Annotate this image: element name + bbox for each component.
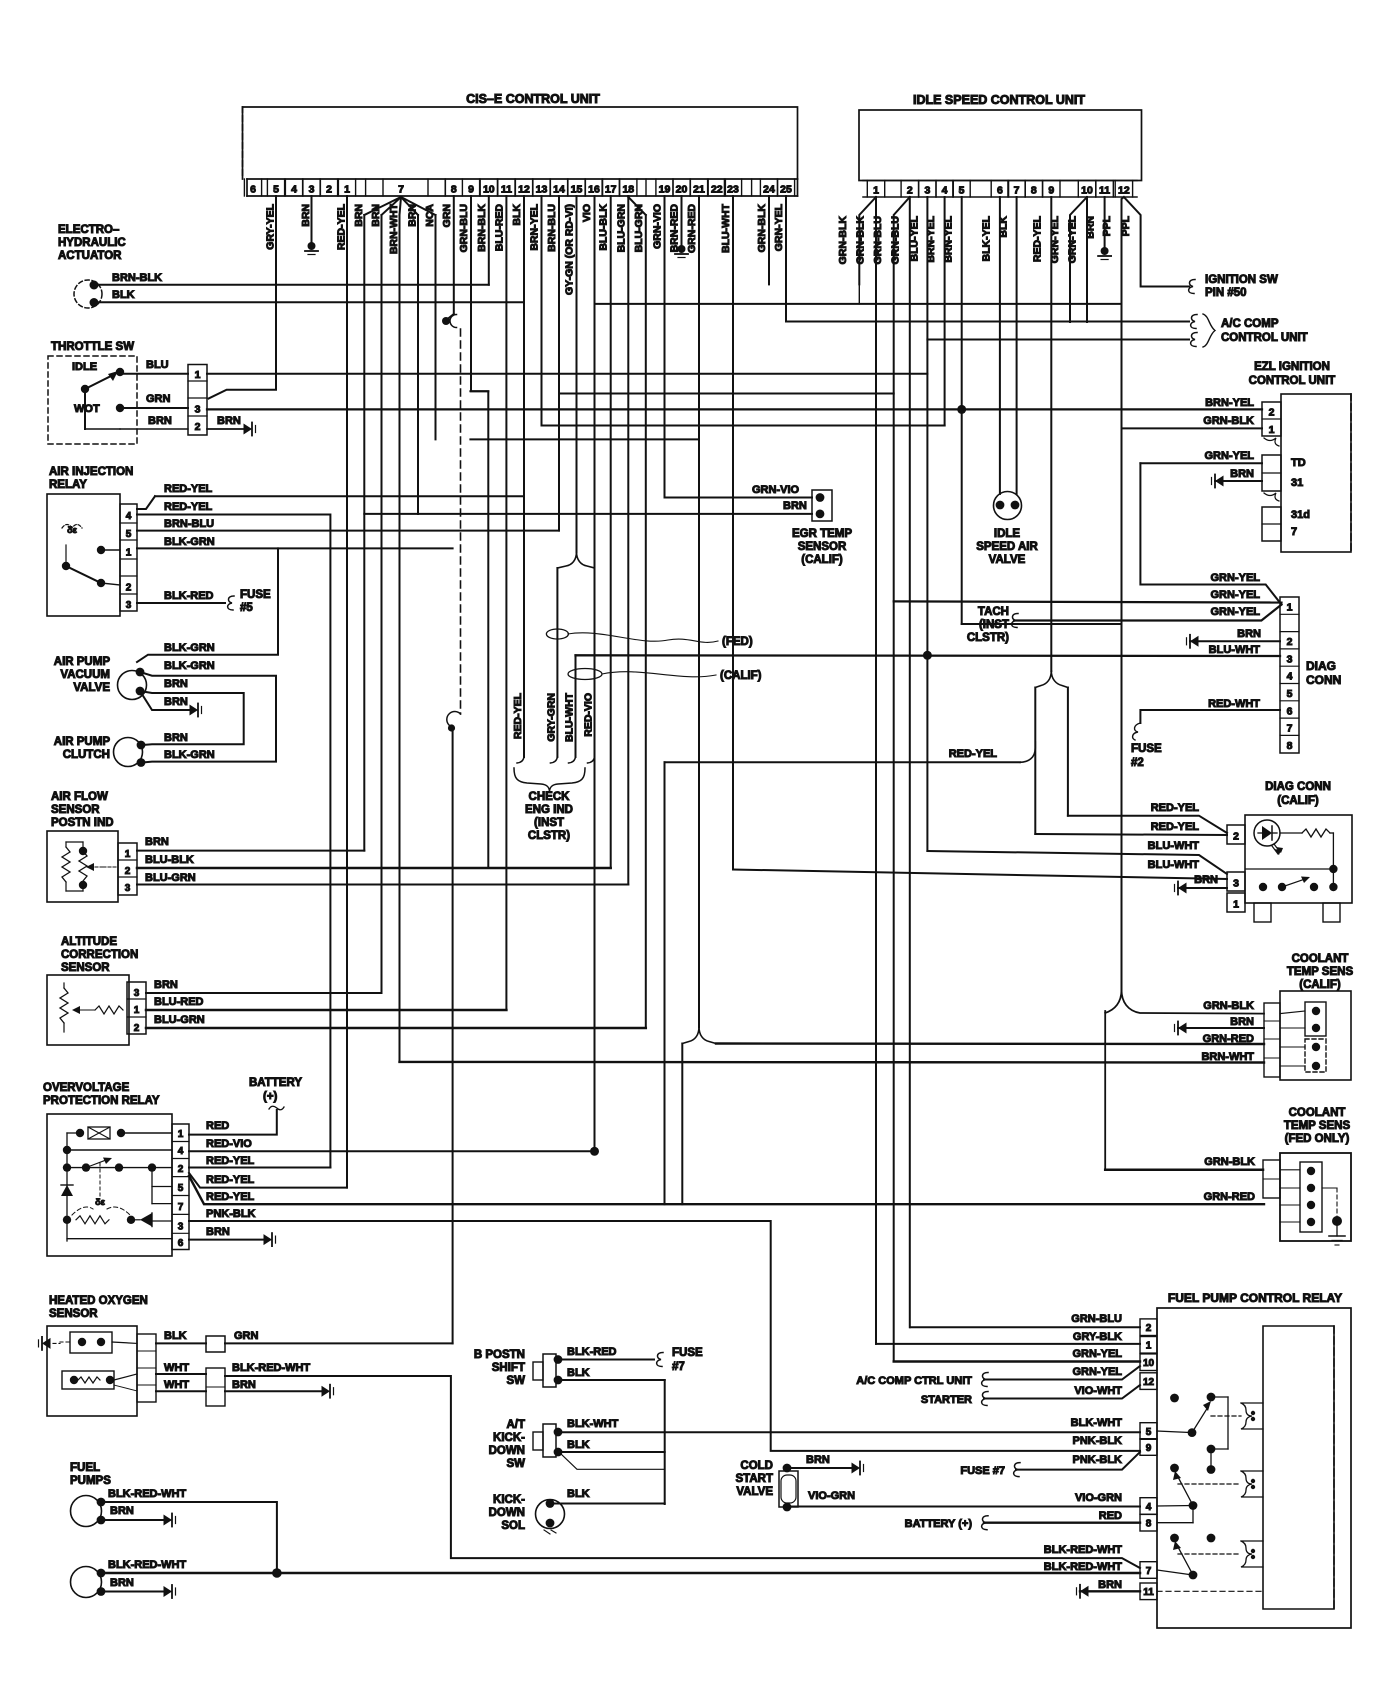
wire RED-WHT to diag pin6: [1140, 710, 1280, 723]
svg-text:OVERVOLTAGE: OVERVOLTAGE: [43, 1082, 130, 1094]
wire BRN altitude to fan2: [146, 992, 382, 994]
svg-text:BRN: BRN: [353, 204, 365, 227]
svg-text:12: 12: [518, 184, 530, 196]
wire GRN-YEL EZL-TD to diag: [1140, 463, 1281, 604]
svg-text:δε: δε: [95, 1197, 105, 1207]
svg-text:(FED): (FED): [722, 636, 753, 648]
svg-text:KICK-: KICK-: [493, 1432, 525, 1444]
wire BLU-BLK pin17: [610, 196, 612, 868]
FPR coil 1: [1241, 1403, 1263, 1429]
svg-text:RED-YEL: RED-YEL: [1032, 215, 1044, 262]
svg-text:BRN-BLK: BRN-BLK: [112, 272, 162, 284]
svg-text:BRN-YEL: BRN-YEL: [529, 203, 541, 250]
svg-text:6: 6: [997, 185, 1003, 197]
svg-text:BLK-RED-WHT: BLK-RED-WHT: [232, 1362, 310, 1374]
wire BLK common vertical: [664, 1380, 666, 1504]
svg-text:14: 14: [553, 184, 565, 196]
svg-text:FUSE: FUSE: [1131, 743, 1162, 755]
wire VIO-GRN cold start to fpr pin4: [787, 1506, 1140, 1508]
svg-text:VIO-WHT: VIO-WHT: [1074, 1385, 1122, 1397]
svg-text:BRN: BRN: [806, 1454, 830, 1466]
wire GRN-YEL ac comp to fpr pin10: [984, 1366, 1140, 1380]
svg-text:2: 2: [1287, 636, 1293, 648]
svg-text:BLK-WHT: BLK-WHT: [1071, 1417, 1123, 1429]
svg-text:21: 21: [693, 184, 705, 196]
svg-text:BRN: BRN: [300, 204, 312, 227]
svg-text:GRN-BLU: GRN-BLU: [1071, 1313, 1122, 1325]
svg-text:RED: RED: [1099, 1510, 1122, 1522]
wire BLU-YEL ISC pin3: [926, 197, 928, 851]
throttle switch contacts: [81, 385, 89, 393]
svg-text:RED-YEL: RED-YEL: [164, 483, 213, 495]
svg-text:5: 5: [1146, 1427, 1152, 1438]
wire GRN-BLK EZL net to coolant calif: [1122, 990, 1265, 1014]
svg-text:BLK-RED: BLK-RED: [567, 1346, 617, 1358]
wire BRN fan2 to altitude: [381, 215, 383, 993]
svg-text:7: 7: [1146, 1566, 1152, 1577]
calif LED: [1254, 820, 1280, 846]
leader squiggle to CALIF: [602, 672, 716, 677]
svg-text:3: 3: [309, 184, 315, 196]
ground fpr BRN: [1080, 1586, 1089, 1597]
svg-text:4: 4: [1287, 671, 1293, 683]
svg-text:GRN-YEL: GRN-YEL: [1073, 1366, 1123, 1378]
fuse #5 arrow: [228, 596, 234, 610]
svg-text:GRN-BLU: GRN-BLU: [890, 216, 902, 264]
svg-text:7: 7: [1291, 526, 1297, 538]
wire WHT o2 1: [156, 1373, 206, 1375]
svg-text:DIAG: DIAG: [1306, 659, 1336, 673]
svg-text:(INST: (INST: [979, 619, 1009, 631]
wire BLU-WHT calif2: [733, 870, 1227, 880]
svg-text:7: 7: [1287, 723, 1293, 735]
junction dot pumps: [272, 1568, 282, 1578]
FPR coil 2: [1241, 1471, 1263, 1497]
calif pin cells: [1227, 825, 1245, 844]
wire BRN cold start to ground: [787, 1467, 853, 1469]
svg-text:BRN: BRN: [1230, 1016, 1254, 1028]
inline connector big: [206, 1368, 225, 1406]
ground throttle BRN: [244, 424, 253, 435]
wire RED-YEL right branch: [1067, 688, 1069, 816]
leader squiggle to FED: [568, 633, 718, 643]
wire RED battery to fpr pin8: [984, 1521, 1140, 1523]
svg-text:6: 6: [1287, 705, 1293, 717]
svg-text:8: 8: [1287, 740, 1293, 752]
svg-text:BLK-RED-WHT: BLK-RED-WHT: [108, 1488, 186, 1500]
svg-text:AIR FLOW: AIR FLOW: [51, 791, 108, 803]
altitude wiper resistor: [95, 1006, 123, 1014]
svg-text:BATTERY: BATTERY: [249, 1077, 302, 1089]
FPR internals middle contact group: [1170, 1464, 1179, 1473]
EZL pin cells: [1262, 402, 1281, 436]
svg-text:CLSTR): CLSTR): [528, 830, 570, 842]
arrow starter: [982, 1392, 988, 1406]
svg-text:1: 1: [873, 185, 879, 197]
svg-text:CHECK: CHECK: [529, 791, 571, 803]
wire BLU-WHT check-eng stub: [575, 655, 577, 757]
junction dot RED-VIO: [590, 1147, 599, 1156]
svg-text:11: 11: [1099, 185, 1110, 197]
wire BLU-GRN airflow to pin18: [137, 884, 628, 886]
svg-text:ACTUATOR: ACTUATOR: [58, 250, 122, 262]
wire BRN-YEL cross-link: [962, 623, 1122, 625]
wire BRN pump1 to ground: [101, 1519, 165, 1521]
wire BLK o2: [156, 1342, 206, 1344]
svg-text:BRN: BRN: [164, 696, 188, 708]
svg-text:BLU-GRN: BLU-GRN: [615, 204, 627, 252]
wire BRN-BLK pin10: [488, 196, 490, 285]
svg-text:CONTROL UNIT: CONTROL UNIT: [1249, 375, 1336, 387]
svg-text:BRN-WHT: BRN-WHT: [388, 203, 400, 254]
OVP row pin4: [63, 1146, 71, 1154]
wire GRN-BRN-YEL throttle to EZL: [120, 407, 188, 409]
OVP bottom row BRN: [67, 1238, 172, 1240]
svg-text:EZL IGNITION: EZL IGNITION: [1254, 361, 1330, 373]
svg-text:(CALIF): (CALIF): [1299, 979, 1341, 991]
wire BRN-YEL jog pin13 to isc pin4: [542, 425, 945, 427]
alternate-wire ellipse CALIF: [568, 669, 602, 680]
junction dot BLU-WHT: [923, 651, 932, 660]
ground O2 BRN: [322, 1386, 331, 1397]
svg-text:11: 11: [501, 184, 512, 196]
svg-text:A/C COMP: A/C COMP: [1221, 318, 1279, 330]
svg-text:10: 10: [1143, 1358, 1155, 1369]
svg-text:PROTECTION RELAY: PROTECTION RELAY: [43, 1095, 160, 1107]
svg-text:BLK-GRN: BLK-GRN: [164, 749, 215, 761]
svg-text:BLU-RED: BLU-RED: [154, 996, 204, 1008]
svg-text:CONTROL UNIT: CONTROL UNIT: [1221, 332, 1308, 344]
svg-text:9: 9: [1048, 185, 1054, 197]
wire GRN-YEL long to diag pin1: [894, 601, 1282, 602]
wire BLK kickdown: [558, 1451, 665, 1453]
wire GRN-VIO pin19 to EGR: [665, 497, 813, 499]
airflow connector 1-2-3: [118, 843, 137, 895]
wire BLK-RED-WHT pump1: [101, 1502, 277, 1573]
svg-text:2: 2: [1146, 1323, 1152, 1334]
svg-text:BRN-YEL: BRN-YEL: [1205, 397, 1254, 409]
wire BLU-BLK airflow to pin17: [137, 867, 611, 870]
wire GRN-BLK to coolant fed: [1105, 1169, 1263, 1172]
wire BLK ISC pin7 to idle valve: [1016, 197, 1018, 494]
airflow resistor elements: [62, 847, 70, 882]
svg-text:IDLE SPEED CONTROL UNIT: IDLE SPEED CONTROL UNIT: [913, 93, 1085, 107]
wire GRN o2 to GRN line: [225, 1342, 453, 1344]
wire BLK-RED-WHT pump2 to FPR pin7: [101, 1572, 1140, 1575]
wire RED-YEL ovp2: [189, 1173, 347, 1188]
svg-text:10: 10: [483, 184, 495, 196]
wire RED ovp to battery: [189, 1110, 277, 1135]
svg-text:2: 2: [125, 866, 131, 877]
wire GRN-RED pin21 with fork: [698, 196, 700, 1027]
svg-text:11: 11: [1143, 1587, 1154, 1598]
svg-text:4: 4: [126, 511, 132, 522]
svg-text:GRN-YEL: GRN-YEL: [1205, 450, 1255, 462]
svg-text:GRN-BLK: GRN-BLK: [756, 204, 768, 253]
svg-text:BRN: BRN: [145, 836, 169, 848]
wire BRN pump2 to ground: [101, 1591, 165, 1593]
svg-text:(INST: (INST: [534, 817, 564, 829]
svg-text:3: 3: [1233, 878, 1239, 890]
svg-text:IGNITION SW: IGNITION SW: [1205, 274, 1278, 286]
wire WHT o2 2: [156, 1390, 206, 1392]
svg-text:7: 7: [1014, 185, 1020, 197]
wire GRY-BLK isc1 to fpr pin1: [876, 1343, 1140, 1345]
svg-text:#2: #2: [1131, 757, 1144, 769]
fuse #2 curl: [1133, 723, 1141, 740]
svg-text:BRN: BRN: [1237, 628, 1261, 640]
b postn switch symbol: [533, 1362, 543, 1380]
O2 heater resistor: [62, 1371, 114, 1389]
ground coolant calif: [1178, 1023, 1187, 1034]
svg-text:GRN-RED: GRN-RED: [686, 204, 698, 253]
wire GRN pin8 with inline connector: [453, 196, 455, 314]
FPR internals top contact group: [1170, 1394, 1179, 1403]
wire BLK-WHT kickdown to fpr pin5: [558, 1431, 1140, 1433]
svg-text:CIS–E CONTROL UNIT: CIS–E CONTROL UNIT: [466, 92, 600, 106]
ground EZL BRN: [1215, 476, 1224, 487]
svg-text:1: 1: [1269, 424, 1275, 436]
svg-text:RED-YEL: RED-YEL: [949, 748, 998, 760]
wire BRN-BLK actuator to pin10: [94, 284, 489, 286]
svg-text:GRN-BLK: GRN-BLK: [1203, 415, 1254, 427]
svg-text:BRN: BRN: [148, 415, 172, 427]
svg-text:PPL: PPL: [1101, 215, 1113, 236]
wire RED-YEL pin1: [346, 196, 348, 1188]
wire BRN ground to EZL 31: [1215, 480, 1262, 482]
ground pump2: [164, 1586, 173, 1597]
ground pump1: [164, 1515, 173, 1526]
svg-text:5: 5: [1287, 688, 1293, 700]
svg-text:BRN-BLK: BRN-BLK: [476, 204, 488, 252]
svg-text:18: 18: [622, 184, 634, 196]
svg-text:15: 15: [571, 184, 583, 196]
wire link NCA: [470, 438, 699, 440]
svg-text:GRY-BLK: GRY-BLK: [1073, 1331, 1122, 1343]
svg-text:TEMP SENS: TEMP SENS: [1287, 966, 1354, 978]
OVP connector: [172, 1124, 189, 1250]
svg-text:GRN-YEL: GRN-YEL: [1067, 215, 1079, 263]
OVP fuse: [76, 1129, 84, 1137]
svg-text:BRN: BRN: [154, 979, 178, 991]
svg-text:GRN-YEL: GRN-YEL: [1211, 572, 1261, 584]
svg-text:BLU-GRN: BLU-GRN: [154, 1014, 205, 1026]
svg-text:23: 23: [727, 184, 739, 196]
svg-text:24: 24: [763, 184, 775, 196]
wire BLK-GRN relay cell1: [137, 547, 453, 549]
svg-text:FUSE #7: FUSE #7: [960, 1465, 1005, 1477]
svg-text:ELECTRO–: ELECTRO–: [58, 224, 120, 236]
wire GRN-BLU isc2 to fpr pin2: [910, 1326, 1140, 1328]
wire GRN-YEL pin25: [785, 196, 787, 322]
svg-text:1: 1: [126, 548, 132, 559]
svg-text:VIO-GRN: VIO-GRN: [1075, 1492, 1122, 1504]
svg-text:PNK-BLK: PNK-BLK: [1073, 1435, 1123, 1447]
svg-text:BLU-BLK: BLU-BLK: [145, 854, 194, 866]
svg-text:FUEL: FUEL: [70, 1462, 100, 1474]
arrow a/c comp ctrl: [982, 1373, 988, 1387]
svg-text:#5: #5: [240, 602, 253, 614]
svg-text:19: 19: [659, 184, 671, 196]
wire BLU-WHT calif1: [927, 851, 1227, 874]
svg-text:1: 1: [125, 849, 131, 860]
svg-text:GRY-YEL: GRY-YEL: [265, 203, 277, 249]
svg-text:GRN-BLU: GRN-BLU: [872, 216, 884, 264]
airflow wiper arrow: [92, 866, 103, 868]
wire kickdown sol link: [560, 1453, 665, 1469]
svg-text:3: 3: [1287, 653, 1293, 665]
wire GRY-YEL pin5 to throttle: [209, 196, 276, 399]
wire GRN-VIO pin19: [664, 196, 666, 498]
svg-text:SPEED AIR: SPEED AIR: [976, 541, 1038, 553]
svg-text:KICK-: KICK-: [493, 1494, 525, 1506]
svg-text:BLK-RED-WHT: BLK-RED-WHT: [108, 1559, 186, 1571]
wire BLK bpostn: [558, 1379, 665, 1381]
svg-text:GRN-YEL: GRN-YEL: [1073, 1348, 1123, 1360]
wire BRN-BLU pin14: [558, 196, 560, 531]
svg-text:2: 2: [134, 1023, 140, 1034]
svg-text:δε: δε: [67, 525, 77, 535]
wire BRN o2 to ground: [225, 1390, 323, 1392]
svg-text:2: 2: [907, 185, 913, 197]
wire BRN-YEL ISC pin4: [944, 197, 946, 426]
svg-text:COOLANT: COOLANT: [1292, 953, 1349, 965]
wire BLK actuator to pin12: [94, 301, 524, 303]
svg-text:BLK-GRN: BLK-GRN: [164, 660, 215, 672]
svg-text:GY-GN (OR RD-VI): GY-GN (OR RD-VI): [564, 204, 576, 295]
wire GRN-BLU jog: [470, 390, 488, 392]
svg-text:DOWN: DOWN: [489, 1507, 525, 1519]
svg-text:BLK-YEL: BLK-YEL: [980, 215, 992, 261]
wire RED-YEL to fork merge: [665, 761, 1021, 763]
wire GRN-YEL TD net to fpr pin10: [894, 1360, 1140, 1362]
svg-text:GRY-GRN: GRY-GRN: [545, 693, 557, 742]
wire GRN-BLK ISC pin1 straight: [875, 197, 877, 1344]
svg-text:BLK-GRN: BLK-GRN: [164, 642, 215, 654]
svg-text:9: 9: [1146, 1443, 1152, 1454]
brace A/C comp: [1203, 314, 1215, 347]
wire PNK-BLK ovp to FPR pin9: [189, 1221, 1140, 1451]
wire BRN throttle to ground: [120, 428, 188, 430]
wire NCA fan5: [435, 215, 437, 439]
arrow battery fpr: [982, 1516, 988, 1530]
wire BRN-YEL ISC pin5: [961, 197, 963, 624]
FPR internals bottom contact group: [1170, 1534, 1179, 1543]
relay contacts: [97, 546, 105, 554]
svg-text:BRN-BLU: BRN-BLU: [164, 518, 214, 530]
svg-text:7: 7: [178, 1202, 184, 1213]
svg-text:SHIFT: SHIFT: [492, 1362, 525, 1374]
wire BLK-GRN valve to clutch: [140, 672, 276, 763]
wire RED-VIO ovp to VIO wire: [189, 1150, 595, 1152]
svg-text:RED-WHT: RED-WHT: [1208, 698, 1260, 710]
svg-text:IDLE: IDLE: [994, 528, 1021, 540]
wire BLK pin12 / RED-YEL check-eng: [523, 196, 525, 757]
svg-text:BLK-GRN: BLK-GRN: [164, 536, 215, 548]
arrow A/C comp 1: [1191, 315, 1197, 329]
svg-text:HYDRAULIC: HYDRAULIC: [58, 237, 126, 249]
svg-text:16: 16: [588, 184, 600, 196]
svg-text:CLSTR): CLSTR): [967, 632, 1009, 644]
wire fan pin7: [364, 197, 401, 215]
svg-text:BLK: BLK: [567, 1488, 590, 1500]
svg-text:BLU-WHT: BLU-WHT: [720, 203, 732, 253]
wire RED-YEL ISC pin9 with fork: [1050, 197, 1052, 671]
svg-text:IDLE: IDLE: [72, 361, 97, 373]
svg-text:SENSOR: SENSOR: [49, 1308, 98, 1320]
svg-text:BRN: BRN: [783, 500, 807, 512]
wire GRN-BLU ISC pin2 straight: [909, 197, 911, 1327]
fed connector cells: [1263, 1160, 1280, 1198]
altitude connector 3-1-2: [127, 982, 146, 1034]
wire GRN-BLK ISC pin1 branch-left: [859, 197, 876, 284]
wire BLK sol: [550, 1503, 665, 1505]
calif box legs: [1254, 903, 1271, 922]
alternate-wire ellipse FED: [546, 629, 568, 639]
svg-text:3: 3: [134, 988, 140, 999]
svg-text:SOL: SOL: [501, 1520, 525, 1532]
wire GRN-YEL ISC pin10 straight: [1086, 197, 1088, 322]
svg-text:PNK-BLK: PNK-BLK: [1073, 1454, 1123, 1466]
svg-text:GRN-RED: GRN-RED: [1204, 1191, 1255, 1203]
wire BLU-WHT long to diag pin3: [576, 654, 1281, 657]
svg-text:BRN-BLU: BRN-BLU: [546, 204, 558, 252]
idle speed air valve: [994, 492, 1022, 520]
svg-text:VALVE: VALVE: [989, 554, 1026, 566]
wire BRN valve to clutch top: [140, 691, 244, 745]
wire BRN-BLU relay cell5 to pin14: [137, 530, 559, 532]
svg-text:1: 1: [134, 1005, 140, 1016]
svg-text:12: 12: [1118, 185, 1130, 197]
OVP inner rail: [66, 1133, 68, 1241]
OVP cell5-7 link: [151, 1168, 153, 1204]
wire BLK-RED-WHT o2 to FPR pin7: [225, 1376, 1140, 1568]
svg-text:ENG IND: ENG IND: [525, 804, 573, 816]
svg-text:(CALIF): (CALIF): [1277, 795, 1319, 807]
svg-text:RED-YEL: RED-YEL: [206, 1174, 255, 1186]
svg-text:POSTN IND: POSTN IND: [51, 817, 114, 829]
svg-text:BRN: BRN: [407, 204, 419, 227]
svg-text:CONN: CONN: [1306, 673, 1341, 687]
svg-text:BLU-BLK: BLU-BLK: [598, 204, 610, 251]
ground diag BRN: [1190, 636, 1199, 647]
wire BRN valve to ground: [140, 691, 191, 710]
wire PPL ISC pin12 branch-right to ignition switch: [1124, 197, 1189, 287]
ground vacuum valve BRN: [190, 705, 199, 716]
svg-text:3: 3: [178, 1222, 184, 1233]
svg-text:RED-YEL: RED-YEL: [206, 1155, 255, 1167]
wire VIO long horizontal: [595, 303, 1122, 305]
svg-text:7: 7: [398, 184, 404, 196]
O2 connector cells: [137, 1334, 156, 1402]
altitude resistor element: [60, 988, 68, 1023]
wire RED-YEL relay cell4 upper: [137, 496, 155, 509]
ground cold start: [852, 1463, 861, 1474]
O2 sensor element box: [70, 1332, 112, 1353]
svg-text:2: 2: [126, 583, 132, 594]
svg-text:BLK: BLK: [112, 289, 135, 301]
svg-text:GRN-YEL: GRN-YEL: [1211, 606, 1261, 618]
svg-text:RED: RED: [206, 1120, 229, 1132]
svg-text:RED-YEL: RED-YEL: [336, 203, 348, 250]
svg-text:BLK: BLK: [567, 1367, 590, 1379]
svg-text:1: 1: [1233, 899, 1239, 911]
svg-text:ALTITUDE: ALTITUDE: [61, 936, 117, 948]
svg-text:A/T: A/T: [506, 1419, 525, 1431]
arrow A/C comp 2: [1191, 333, 1197, 347]
air injection relay connector: [120, 504, 137, 611]
svg-text:BLK-RED-WHT: BLK-RED-WHT: [1044, 1544, 1122, 1556]
